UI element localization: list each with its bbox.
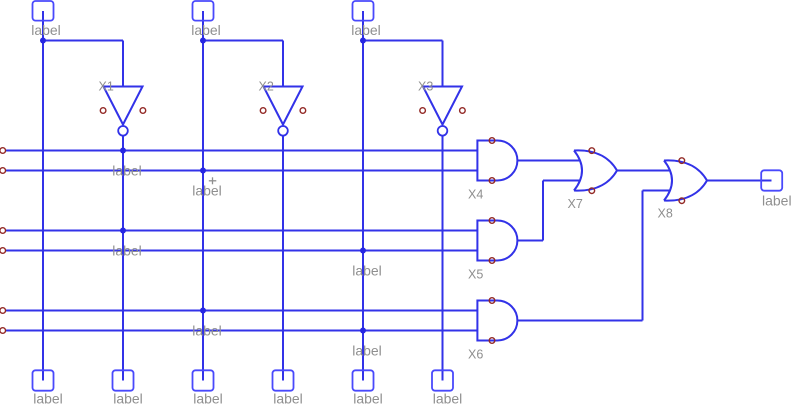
svg-text:label: label	[31, 22, 61, 38]
svg-text:label: label	[192, 182, 222, 198]
svg-text:label: label	[353, 390, 383, 406]
svg-text:label: label	[352, 262, 382, 278]
svg-text:label: label	[352, 342, 382, 358]
svg-text:label: label	[33, 390, 63, 406]
svg-text:X5: X5	[468, 267, 483, 281]
svg-text:X1: X1	[99, 80, 114, 94]
svg-text:X8: X8	[658, 206, 673, 220]
svg-text:label: label	[192, 322, 222, 338]
svg-text:label: label	[112, 162, 142, 178]
svg-text:X7: X7	[568, 197, 583, 211]
svg-text:label: label	[193, 390, 223, 406]
svg-text:label: label	[433, 390, 463, 406]
svg-text:X3: X3	[418, 80, 433, 94]
svg-text:label: label	[191, 22, 221, 38]
svg-text:label: label	[351, 22, 381, 38]
svg-text:label: label	[762, 192, 792, 208]
svg-text:X6: X6	[468, 347, 483, 361]
svg-text:label: label	[273, 390, 303, 406]
svg-text:X4: X4	[468, 187, 483, 201]
svg-text:label: label	[112, 242, 142, 258]
svg-text:label: label	[113, 390, 143, 406]
svg-text:X2: X2	[259, 80, 274, 94]
